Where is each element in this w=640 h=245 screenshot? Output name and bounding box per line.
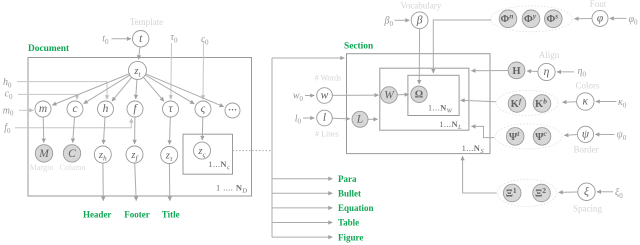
svg-text:w: w	[321, 90, 329, 102]
svg-text:Para: Para	[338, 174, 357, 184]
svg-text:Vocabulary: Vocabulary	[400, 1, 441, 11]
svg-text:ψ: ψ	[582, 129, 590, 141]
svg-text:Equation: Equation	[338, 203, 374, 213]
svg-text:η: η	[544, 66, 550, 78]
svg-text:M: M	[38, 148, 50, 160]
svg-text:Title: Title	[162, 210, 180, 220]
svg-text:Figure: Figure	[338, 232, 363, 242]
svg-text:Footer: Footer	[124, 210, 149, 220]
svg-text:Spacing: Spacing	[573, 204, 602, 214]
svg-text:Column: Column	[60, 163, 86, 172]
svg-text:Document: Document	[28, 44, 70, 54]
svg-text:m: m	[39, 103, 47, 115]
svg-text:β: β	[416, 15, 423, 27]
svg-text:W: W	[384, 89, 395, 101]
svg-text:Margin: Margin	[30, 163, 53, 172]
svg-text:Table: Table	[338, 218, 359, 228]
svg-text:Align: Align	[539, 50, 560, 60]
svg-text:L: L	[356, 114, 363, 126]
svg-text:Font: Font	[590, 0, 607, 9]
svg-text:ξ: ξ	[584, 185, 589, 198]
svg-text:Border: Border	[574, 144, 599, 154]
svg-text:Ω: Ω	[415, 90, 423, 101]
svg-text:C: C	[68, 148, 76, 160]
svg-text:Bullet: Bullet	[338, 189, 361, 199]
svg-text:c: c	[72, 103, 77, 115]
svg-text:φ: φ	[597, 13, 604, 25]
svg-text:Section: Section	[344, 42, 374, 52]
svg-text:κ: κ	[583, 96, 589, 108]
svg-text:ς: ς	[201, 103, 206, 115]
svg-text:Header: Header	[83, 210, 112, 220]
svg-text:···: ···	[228, 105, 237, 115]
svg-text:# Words: # Words	[315, 74, 342, 83]
svg-text:l: l	[323, 112, 326, 124]
svg-text:# Lines: # Lines	[315, 129, 339, 138]
svg-text:H: H	[512, 66, 520, 77]
svg-text:Colors: Colors	[575, 81, 600, 91]
svg-text:h: h	[103, 103, 109, 115]
svg-text:Template: Template	[130, 17, 163, 27]
